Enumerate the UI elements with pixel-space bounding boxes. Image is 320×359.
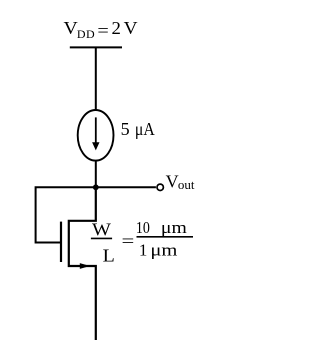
svg-text:V: V	[124, 18, 138, 38]
label 10um over 1um fraction	[136, 218, 193, 260]
terminal Vout (open circle)	[157, 184, 163, 190]
svg-text:V: V	[64, 18, 78, 38]
node Vout label	[166, 172, 195, 193]
svg-text:1: 1	[139, 241, 148, 260]
svg-text:DD: DD	[77, 27, 95, 41]
svg-text:V: V	[166, 172, 179, 192]
svg-text:5: 5	[121, 119, 130, 139]
svg-text:W: W	[92, 220, 111, 240]
svg-text:μm: μm	[150, 241, 177, 260]
wire from current source to output node	[95, 160, 97, 188]
wire output node to Vout terminal and feedback down-left to gate	[36, 187, 156, 242]
svg-text:=: =	[97, 20, 108, 40]
current source arrow (downward)	[95, 117, 97, 144]
svg-text:=: =	[122, 231, 135, 250]
transistor M1 gate bar	[60, 222, 62, 262]
transistor M1 drain-channel-source path	[69, 187, 96, 340]
transistor M1 source arrow (NMOS, pointing right)	[80, 263, 90, 269]
current source I1 (ellipse)	[78, 110, 114, 161]
value label 5 uA	[121, 119, 155, 139]
svg-text:10: 10	[136, 218, 150, 237]
svg-text:2: 2	[112, 18, 121, 38]
power rail VDD	[70, 46, 122, 48]
svg-text:μm: μm	[161, 218, 187, 237]
node junction dot	[93, 184, 99, 190]
label W over L fraction	[91, 220, 115, 266]
svg-text:out: out	[178, 177, 195, 192]
wire from VDD rail to current source	[95, 47, 97, 111]
svg-text:μA: μA	[135, 119, 155, 139]
svg-text:L: L	[103, 245, 115, 265]
node VDD label	[64, 18, 138, 41]
